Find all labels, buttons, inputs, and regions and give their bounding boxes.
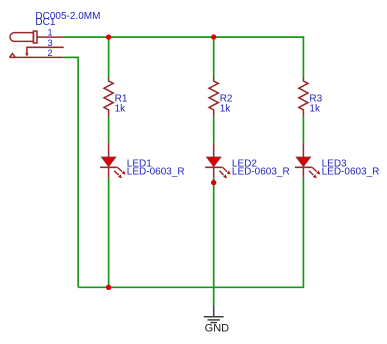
svg-text:DC1: DC1 xyxy=(35,17,55,28)
resistor R1 xyxy=(104,78,128,117)
wire R1 to LED1 xyxy=(108,116,110,142)
wire node A to node B xyxy=(109,36,214,38)
svg-text:GND: GND xyxy=(205,323,230,335)
resistor R3 xyxy=(299,78,323,117)
LED1 emission arrow lower xyxy=(114,171,118,175)
wire R3 to LED3 xyxy=(302,116,304,142)
wire top right corner down to R3 xyxy=(302,36,304,78)
ground xyxy=(204,306,229,335)
junction bottom rail node C xyxy=(106,285,111,290)
LED3 cathode lead xyxy=(302,167,304,177)
ground bar 3 xyxy=(210,322,217,324)
junction node B xyxy=(211,34,216,39)
LED2 triangle xyxy=(207,157,221,166)
wire LED2 cathode down through rail to ground xyxy=(213,178,215,307)
svg-text:1k: 1k xyxy=(309,103,321,114)
junction LED2 cathode xyxy=(211,180,216,185)
wire LED1 cathode down to bottom rail xyxy=(108,178,110,288)
ground bar 2 xyxy=(208,319,220,321)
DC1 pin 3 line xyxy=(27,47,64,53)
svg-text:LED-0603_R: LED-0603_R xyxy=(232,166,290,177)
DC1 pin 2 line xyxy=(9,56,63,58)
LED LED2 xyxy=(205,143,290,179)
LED2 emission arrow lower xyxy=(219,171,223,175)
LED2 anode lead xyxy=(213,143,215,158)
LED LED1 xyxy=(100,143,185,179)
svg-text:LED-0603_R: LED-0603_R xyxy=(322,166,380,177)
DC1 switch arrow xyxy=(25,53,29,57)
wire R2 to LED2 xyxy=(213,116,215,142)
wire node A down to R1 xyxy=(108,37,110,78)
ground stem xyxy=(213,306,215,317)
DC1 switch contact caret xyxy=(10,54,16,58)
wire LED3 cathode down to bottom rail xyxy=(302,178,304,289)
connector DC1 xyxy=(9,11,100,58)
wire node B down to R2 xyxy=(213,37,215,78)
svg-text:1k: 1k xyxy=(220,103,232,114)
svg-text:3: 3 xyxy=(47,38,52,48)
LED3 cathode bar xyxy=(295,166,312,168)
LED LED3 xyxy=(295,143,380,179)
LED1 anode lead xyxy=(108,143,110,158)
LED3 emission arrow lower xyxy=(309,171,313,175)
LED2 emission arrow upper xyxy=(223,167,228,171)
LED1 triangle xyxy=(102,157,116,166)
ground bar 1 xyxy=(204,316,224,318)
wire node B to top right corner xyxy=(214,36,305,38)
junction node A xyxy=(106,34,111,39)
svg-text:1k: 1k xyxy=(115,103,127,114)
LED3 anode lead xyxy=(302,143,304,158)
LED1 cathode lead xyxy=(108,167,110,177)
svg-text:1: 1 xyxy=(47,27,52,37)
LED3 triangle xyxy=(296,157,310,166)
svg-text:2: 2 xyxy=(47,48,52,58)
LED1 cathode bar xyxy=(100,166,117,168)
wire bottom rail xyxy=(78,286,303,288)
LED1 emission arrow upper xyxy=(117,167,122,171)
wire pin1 to node A xyxy=(64,36,109,38)
LED3 emission arrow upper xyxy=(312,167,317,171)
DC1 tip bar xyxy=(33,31,37,43)
DC1 pin 1 line xyxy=(37,36,64,38)
LED2 cathode bar xyxy=(205,166,222,168)
wire pin2 to left riser xyxy=(64,56,78,58)
resistor R2 xyxy=(209,78,233,117)
wire left riser down xyxy=(77,57,79,288)
DC1 barrel body xyxy=(10,33,33,42)
LED2 cathode lead xyxy=(213,167,215,177)
svg-text:LED-0603_R: LED-0603_R xyxy=(127,166,185,177)
